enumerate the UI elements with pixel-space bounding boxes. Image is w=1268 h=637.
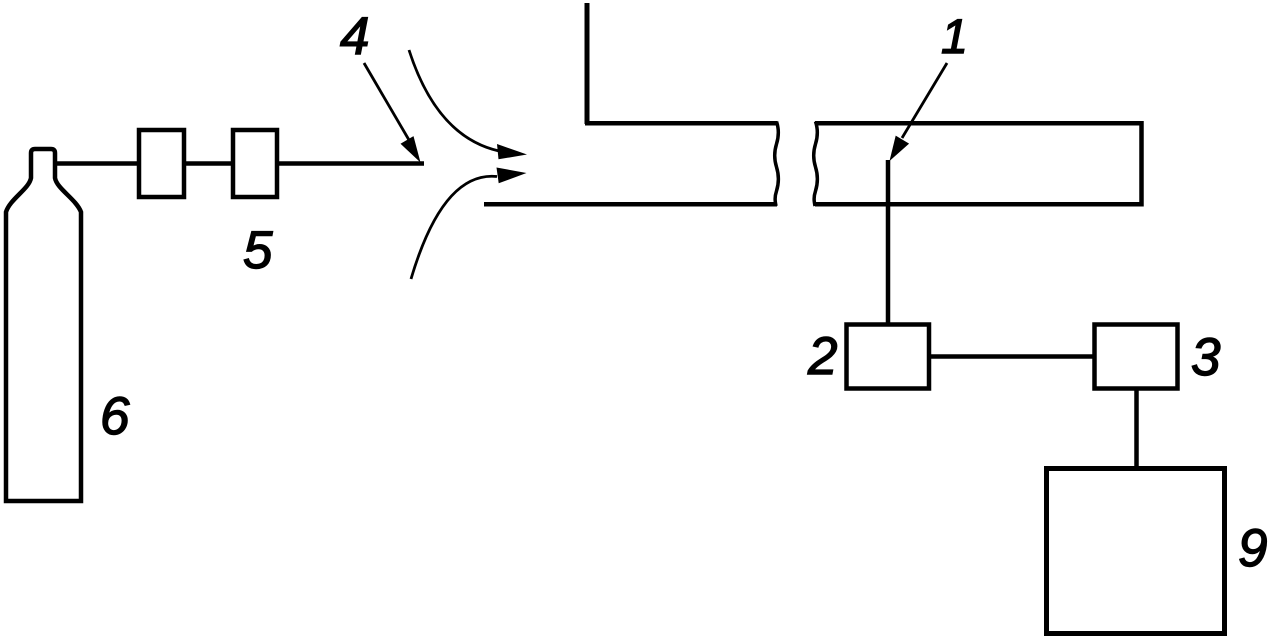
svg-text:4: 4 [340,7,369,66]
svg-text:9: 9 [1238,519,1267,578]
svg-text:2: 2 [807,327,837,386]
svg-text:1: 1 [941,10,968,64]
svg-text:6: 6 [100,387,130,446]
svg-text:3: 3 [1191,328,1221,387]
svg-text:5: 5 [243,221,273,280]
